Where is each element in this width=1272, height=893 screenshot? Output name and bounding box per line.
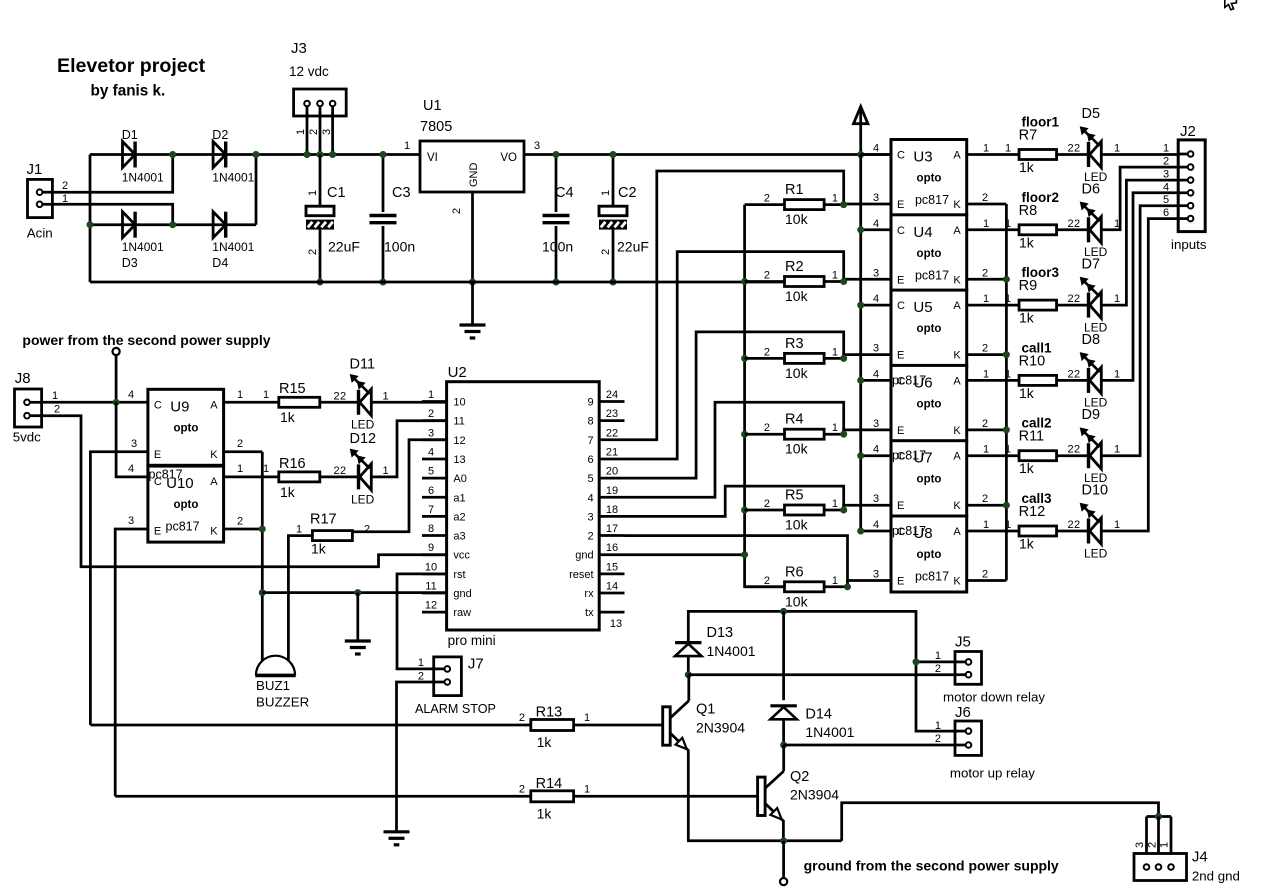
wire J5 pin2 to Q1 collector (688, 663, 955, 675)
resistor R14 (519, 776, 590, 822)
svg-text:1k: 1k (537, 734, 553, 750)
wire R9 to D7 (1057, 293, 1089, 305)
svg-text:1: 1 (983, 368, 989, 380)
pc817 labels U5 U6 U7 (892, 373, 926, 538)
optocoupler U5 (891, 290, 967, 366)
svg-text:4: 4 (587, 492, 593, 504)
svg-text:22uF: 22uF (328, 239, 360, 255)
wire R13 row (90, 724, 530, 727)
svg-text:J5: J5 (955, 634, 971, 651)
svg-text:1: 1 (1114, 368, 1120, 380)
wire J8 pin1 to U9 C (42, 389, 148, 406)
svg-text:4: 4 (1163, 181, 1169, 193)
svg-text:3: 3 (131, 438, 137, 450)
wire R3 pin1 to opto E (824, 343, 891, 362)
svg-text:U9: U9 (170, 398, 189, 415)
svg-text:Q2: Q2 (790, 769, 809, 785)
svg-text:ALARM STOP: ALARM STOP (415, 702, 496, 716)
svg-text:motor up relay: motor up relay (950, 766, 1035, 781)
svg-text:1: 1 (983, 519, 989, 531)
svg-text:1: 1 (983, 444, 989, 456)
svg-text:A: A (953, 300, 961, 312)
svg-text:2N3904: 2N3904 (790, 787, 839, 803)
diode D14 (770, 706, 854, 740)
svg-text:2: 2 (1074, 444, 1080, 456)
svg-text:E: E (897, 199, 904, 211)
svg-text:R11: R11 (1019, 429, 1045, 445)
svg-text:2: 2 (519, 712, 525, 724)
svg-text:GND: GND (468, 163, 480, 188)
connector J8 (13, 370, 60, 445)
svg-text:2: 2 (308, 129, 320, 135)
svg-text:2nd gnd: 2nd gnd (1192, 869, 1240, 884)
svg-text:opto: opto (917, 323, 942, 335)
svg-text:LED: LED (351, 418, 375, 432)
svg-text:4: 4 (128, 463, 134, 475)
svg-text:4: 4 (873, 519, 879, 531)
svg-text:10k: 10k (785, 288, 809, 304)
resistor R5 (764, 488, 838, 533)
svg-text:10: 10 (425, 561, 437, 573)
svg-text:R9: R9 (1019, 278, 1038, 294)
svg-text:J8: J8 (15, 370, 31, 387)
svg-text:2: 2 (237, 516, 243, 528)
svg-text:3: 3 (1134, 842, 1146, 848)
regulator U1 7805 (420, 98, 524, 214)
wire U2 gnd (262, 589, 446, 596)
svg-text:a3: a3 (453, 531, 465, 543)
wire R3 pin2 stub (745, 357, 785, 360)
svg-text:1: 1 (983, 218, 989, 230)
node ground from the second power supply (780, 841, 1059, 885)
wire D2/D4 cathode vertical (255, 155, 258, 225)
svg-text:LED: LED (351, 492, 375, 506)
svg-text:1: 1 (1114, 143, 1120, 155)
svg-text:1: 1 (383, 390, 389, 402)
LED D12 (350, 431, 377, 506)
svg-text:2: 2 (764, 270, 770, 282)
svg-text:2: 2 (1068, 293, 1074, 305)
svg-text:1k: 1k (1019, 385, 1035, 401)
svg-text:1: 1 (404, 140, 410, 152)
optocoupler U9 (148, 389, 224, 465)
svg-text:4: 4 (873, 218, 879, 230)
svg-text:R10: R10 (1019, 353, 1046, 369)
wire U9 K / U10 K chain to buzzer (224, 438, 266, 662)
svg-text:5: 5 (1163, 194, 1169, 206)
net label floor3 (1022, 265, 1060, 280)
resistor R6 (764, 564, 838, 609)
wire R17 pin1 to buzzer (288, 524, 312, 662)
wire R5 pin2 stub (745, 509, 785, 512)
svg-text:17: 17 (606, 523, 618, 535)
svg-text:a1: a1 (453, 492, 465, 504)
transistor Q1 (663, 675, 746, 751)
svg-text:2: 2 (764, 575, 770, 587)
wire U9 E to R13 column (90, 438, 147, 725)
svg-text:C1: C1 (327, 185, 346, 201)
svg-text:2: 2 (1068, 444, 1074, 456)
svg-text:pc817: pc817 (915, 193, 949, 207)
svg-text:1: 1 (832, 498, 838, 510)
wire D12 to U2 pin 11 (371, 421, 446, 477)
svg-text:1: 1 (296, 524, 302, 536)
diode D2 (212, 128, 254, 185)
svg-text:VI: VI (427, 152, 438, 164)
wire to U10 C (116, 402, 148, 477)
wire J7 pin2 to ground (397, 682, 434, 832)
svg-text:9: 9 (428, 542, 434, 554)
resistor R7 (1019, 128, 1057, 176)
svg-text:1k: 1k (1019, 536, 1035, 552)
svg-text:2: 2 (340, 390, 346, 402)
connector J2 (1163, 123, 1207, 252)
svg-text:E: E (154, 526, 161, 538)
svg-text:1k: 1k (280, 409, 296, 425)
svg-text:1k: 1k (280, 484, 296, 500)
svg-text:J2: J2 (1180, 123, 1196, 140)
LED D5 (1080, 106, 1108, 184)
svg-text:2: 2 (935, 733, 941, 745)
wire J6 pin2 to Q2 collector (784, 733, 955, 745)
svg-text:1: 1 (1163, 143, 1169, 155)
svg-text:rst: rst (453, 569, 465, 581)
svg-text:D8: D8 (1082, 332, 1101, 348)
svg-text:2: 2 (1074, 293, 1080, 305)
svg-text:1k: 1k (1019, 460, 1035, 476)
svg-text:10k: 10k (785, 365, 809, 381)
svg-text:pc817: pc817 (149, 467, 183, 481)
svg-text:inputs: inputs (1171, 237, 1207, 252)
svg-text:1: 1 (1005, 293, 1011, 305)
svg-text:8: 8 (587, 416, 593, 428)
svg-text:4: 4 (873, 293, 879, 305)
wire C stub U8 (857, 519, 891, 535)
net label floor1 (1022, 115, 1060, 130)
optocoupler U6 (891, 365, 967, 441)
svg-text:D1: D1 (122, 128, 138, 142)
wire U2 pin 19 to R4 (625, 402, 844, 497)
microcontroller U2 pro mini (422, 364, 625, 648)
wire R6 pin1 to opto E (824, 569, 891, 591)
svg-text:10: 10 (453, 397, 465, 409)
svg-text:1: 1 (263, 389, 269, 401)
svg-text:Elevetor project: Elevetor project (57, 55, 206, 77)
svg-text:A: A (210, 476, 218, 488)
svg-text:K: K (953, 274, 961, 286)
svg-text:R13: R13 (536, 705, 563, 721)
wire emitter ground bus (687, 837, 842, 844)
resistor R4 (764, 412, 838, 457)
svg-text:A0: A0 (453, 473, 466, 485)
wire R13 to Q1 base (574, 724, 663, 727)
svg-text:K: K (953, 576, 961, 588)
svg-text:1k: 1k (1019, 234, 1035, 250)
svg-text:K: K (953, 199, 961, 211)
wire opto U7 A to R11 (967, 444, 1019, 456)
svg-text:1: 1 (428, 389, 434, 401)
svg-text:2: 2 (237, 438, 243, 450)
svg-text:U2: U2 (448, 364, 467, 381)
svg-text:15: 15 (606, 561, 618, 573)
svg-text:2: 2 (982, 192, 988, 204)
svg-text:E: E (897, 274, 904, 286)
resistor R2 (764, 259, 838, 304)
svg-text:D6: D6 (1082, 181, 1101, 197)
wire D14 top (782, 611, 785, 700)
connector J3 (289, 40, 346, 135)
wire left vertical D1.A/D3.A to ground rail (89, 155, 92, 283)
wire U2 pin 20 to R3 (625, 332, 844, 478)
svg-text:2: 2 (1163, 156, 1169, 168)
svg-text:VO: VO (500, 152, 517, 164)
svg-text:A: A (953, 375, 961, 387)
svg-text:pc817: pc817 (166, 519, 200, 533)
svg-text:1k: 1k (537, 806, 553, 822)
svg-text:J1: J1 (27, 161, 43, 178)
diode D4 (212, 212, 254, 270)
svg-text:100n: 100n (542, 239, 573, 255)
svg-text:R8: R8 (1019, 203, 1038, 219)
svg-text:J6: J6 (955, 704, 971, 721)
diode D13 (675, 625, 756, 659)
svg-text:1: 1 (1005, 143, 1011, 155)
svg-text:21: 21 (606, 446, 618, 458)
svg-text:2: 2 (764, 498, 770, 510)
resistor R3 (764, 336, 838, 381)
svg-text:E: E (897, 425, 904, 437)
svg-text:2: 2 (1074, 143, 1080, 155)
svg-text:1: 1 (832, 193, 838, 205)
svg-text:1: 1 (935, 720, 941, 732)
svg-text:5vdc: 5vdc (13, 430, 41, 445)
wire R1 pin1 to opto E (824, 192, 891, 208)
svg-text:C3: C3 (392, 185, 411, 201)
svg-text:100n: 100n (384, 239, 415, 255)
capacitor C2 (599, 151, 649, 286)
svg-text:1: 1 (1114, 218, 1120, 230)
wire R12 to D10 (1057, 519, 1089, 531)
junction dots bridge (87, 151, 260, 228)
resistor R16 (279, 456, 320, 500)
svg-text:C: C (897, 150, 905, 162)
svg-text:gnd: gnd (575, 550, 593, 562)
svg-text:1: 1 (418, 657, 424, 669)
svg-text:1: 1 (1005, 218, 1011, 230)
svg-text:K: K (953, 500, 961, 512)
svg-text:2: 2 (428, 408, 434, 420)
LED D10 (1080, 483, 1108, 561)
svg-text:14: 14 (606, 581, 618, 593)
wire U2 pin 22 to R1 (625, 171, 844, 440)
svg-text:J7: J7 (468, 656, 484, 673)
svg-text:reset: reset (569, 569, 593, 581)
svg-text:2: 2 (587, 531, 593, 543)
wire R4 pin1 to opto E (824, 418, 891, 438)
wire U9 A to R15 (224, 389, 279, 402)
svg-text:1: 1 (832, 270, 838, 282)
svg-text:BUZZER: BUZZER (256, 695, 309, 710)
svg-text:1: 1 (983, 143, 989, 155)
wire D7 to J2 pin 3 (1101, 180, 1178, 305)
svg-text:J4: J4 (1192, 849, 1208, 866)
svg-text:R1: R1 (785, 182, 804, 198)
svg-text:pc817: pc817 (892, 449, 926, 463)
svg-text:1: 1 (1159, 842, 1171, 848)
svg-text:7805: 7805 (420, 119, 452, 135)
svg-text:2: 2 (1068, 143, 1074, 155)
svg-text:2: 2 (764, 193, 770, 205)
resistor R11 (1019, 429, 1057, 477)
svg-text:LED: LED (1084, 546, 1108, 560)
svg-text:19: 19 (606, 485, 618, 497)
wire R10 to D8 (1057, 368, 1089, 380)
connector J7 (415, 656, 496, 717)
net label call2 (1022, 416, 1052, 431)
svg-text:C: C (897, 225, 905, 237)
LED D7 (1080, 257, 1108, 335)
wire U2 pin 17 to R6 (625, 536, 848, 587)
wire C stub U5 (857, 293, 891, 309)
svg-text:R6: R6 (785, 564, 804, 580)
svg-text:D14: D14 (805, 707, 832, 723)
wire bottom diode row (90, 223, 256, 226)
resistor R15 (279, 381, 320, 425)
svg-text:20: 20 (606, 466, 618, 478)
svg-text:D11: D11 (350, 357, 376, 373)
svg-text:E: E (897, 576, 904, 588)
svg-text:opto: opto (917, 549, 942, 561)
buzzer BUZ1 (255, 656, 309, 710)
svg-text:8: 8 (428, 523, 434, 535)
svg-text:9: 9 (587, 397, 593, 409)
wire R4 pin2 stub (745, 433, 785, 436)
svg-text:3: 3 (873, 493, 879, 505)
ground symbol below J7 (384, 832, 410, 845)
wire U10 E to R14 column (115, 515, 148, 796)
svg-text:2: 2 (1068, 519, 1074, 531)
power arrow +V (854, 107, 868, 159)
svg-text:10k: 10k (785, 593, 809, 609)
svg-text:16: 16 (606, 542, 618, 554)
svg-text:R4: R4 (785, 412, 804, 428)
capacitor C3 (370, 151, 416, 286)
svg-text:R17: R17 (310, 512, 337, 528)
svg-text:7: 7 (587, 435, 593, 447)
svg-text:K: K (210, 526, 218, 538)
svg-text:4: 4 (873, 368, 879, 380)
svg-text:3: 3 (873, 192, 879, 204)
wire J1 pin1 to D3/D4 junction (52, 204, 172, 224)
svg-text:13: 13 (453, 454, 465, 466)
svg-text:1k: 1k (1019, 310, 1035, 326)
svg-text:1: 1 (1114, 444, 1120, 456)
wire R5 pin1 to opto E (824, 493, 891, 513)
svg-text:E: E (897, 350, 904, 362)
svg-text:pc817: pc817 (915, 570, 949, 584)
svg-text:D10: D10 (1082, 483, 1109, 499)
svg-text:1: 1 (584, 783, 590, 795)
wire C stub U4 (857, 218, 891, 234)
svg-text:D5: D5 (1082, 106, 1101, 122)
svg-text:J3: J3 (291, 40, 307, 57)
svg-text:12: 12 (425, 600, 437, 612)
wire R pull vertical column (741, 205, 784, 587)
svg-text:3: 3 (428, 427, 434, 439)
net label call1 (1022, 340, 1053, 355)
wire D10 to J2 pin 6 (1101, 219, 1178, 531)
svg-text:2: 2 (1074, 368, 1080, 380)
svg-text:2N3904: 2N3904 (696, 720, 745, 736)
wire D13 to Q1 collector node (685, 656, 692, 678)
net label floor2 (1022, 190, 1060, 205)
wire to J4 (842, 803, 1159, 841)
wire U10 A to R16 (224, 463, 279, 477)
svg-text:1: 1 (383, 465, 389, 477)
wire U1 GND pin to ground (469, 192, 476, 325)
wire R6 pin2 stub (745, 585, 785, 588)
svg-text:7: 7 (428, 504, 434, 516)
svg-text:10k: 10k (785, 517, 809, 533)
svg-text:D13: D13 (707, 625, 734, 641)
svg-text:A: A (953, 526, 961, 538)
optocoupler U8 (891, 516, 967, 592)
svg-text:Acin: Acin (27, 226, 53, 241)
svg-text:1: 1 (1005, 519, 1011, 531)
resistor R12 (1019, 504, 1057, 552)
cursor (1225, 0, 1237, 10)
wire D8 to J2 pin 4 (1101, 193, 1178, 381)
svg-text:1N4001: 1N4001 (122, 171, 164, 185)
wire U2 pin 21 to R2 (625, 252, 844, 459)
svg-text:2: 2 (62, 180, 68, 192)
svg-text:C: C (897, 300, 905, 312)
svg-text:pro mini: pro mini (448, 633, 496, 648)
svg-text:D9: D9 (1082, 407, 1101, 423)
svg-text:2: 2 (364, 524, 370, 536)
wire J5 pin1 (913, 650, 956, 665)
svg-text:R15: R15 (279, 381, 306, 397)
svg-text:R3: R3 (785, 336, 804, 352)
wire C stub U7 (857, 444, 891, 460)
svg-text:opto: opto (173, 422, 198, 434)
svg-text:U1: U1 (423, 98, 442, 114)
ground symbol under U1 (460, 325, 486, 338)
svg-text:2: 2 (1068, 368, 1074, 380)
svg-text:A: A (953, 225, 961, 237)
svg-text:2: 2 (340, 465, 346, 477)
wire Q2 emitter down (782, 820, 785, 841)
wire D5 to J2 pin1 (1101, 143, 1178, 155)
svg-text:1N4001: 1N4001 (212, 240, 254, 254)
svg-text:E: E (154, 449, 161, 461)
svg-text:24: 24 (606, 389, 618, 401)
wire D9 to J2 pin 5 (1101, 206, 1178, 456)
transistor Q2 (758, 745, 840, 821)
svg-text:18: 18 (606, 504, 618, 516)
svg-text:10k: 10k (785, 211, 809, 227)
svg-text:motor down relay: motor down relay (943, 690, 1045, 705)
svg-text:4: 4 (873, 444, 879, 456)
svg-text:U5: U5 (913, 299, 932, 316)
svg-text:3: 3 (873, 343, 879, 355)
svg-text:pc817: pc817 (915, 268, 949, 282)
wire +V rail vertical to opto C pins (859, 155, 862, 531)
svg-text:2: 2 (54, 404, 60, 416)
resistor R9 (1019, 278, 1057, 326)
svg-text:2: 2 (1074, 218, 1080, 230)
svg-text:1: 1 (832, 422, 838, 434)
